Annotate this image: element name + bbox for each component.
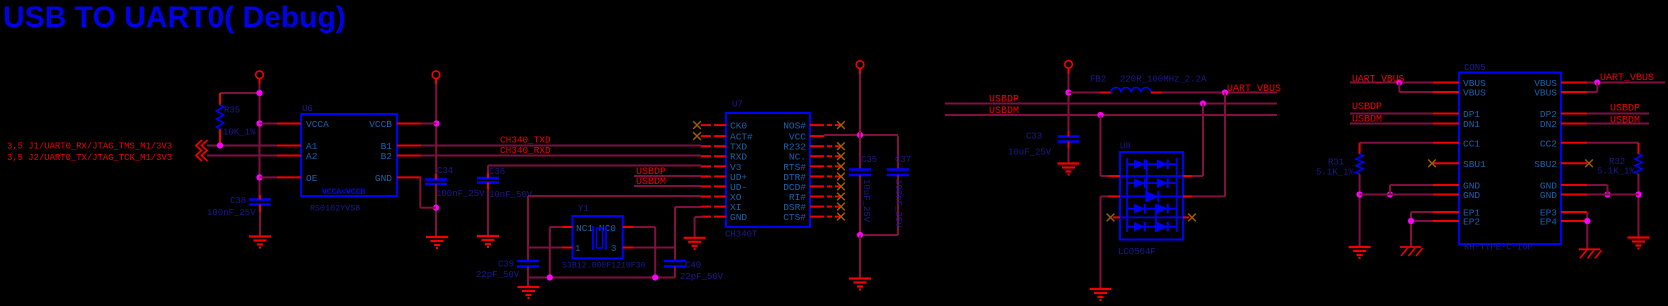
svg-text:CK0: CK0 [730, 121, 747, 132]
svg-text:GND: GND [375, 173, 392, 184]
svg-text:LC0504F: LC0504F [1118, 247, 1156, 257]
svg-text:USBDM: USBDM [636, 177, 666, 188]
svg-text:Y1: Y1 [578, 204, 589, 214]
svg-text:C39: C39 [498, 260, 514, 270]
svg-text:VBUS: VBUS [1463, 88, 1486, 99]
svg-text:EP2: EP2 [1463, 217, 1480, 228]
svg-text:VCCA<VCCB: VCCA<VCCB [322, 188, 365, 197]
svg-text:B2: B2 [381, 151, 393, 162]
svg-text:CC1: CC1 [1463, 138, 1480, 149]
svg-text:C34: C34 [437, 166, 453, 176]
svg-text:100nF_25V: 100nF_25V [436, 189, 485, 199]
svg-text:FB2: FB2 [1090, 75, 1106, 85]
svg-text:UART_VBUS: UART_VBUS [1227, 84, 1281, 95]
svg-text:KH-TYPE-C-16P: KH-TYPE-C-16P [1464, 243, 1533, 253]
svg-text:VCCB: VCCB [369, 119, 392, 130]
svg-text:22pF_50V: 22pF_50V [680, 272, 724, 282]
svg-text:UART_VBUS: UART_VBUS [1600, 73, 1654, 84]
svg-text:GND: GND [1463, 190, 1480, 201]
svg-text:R32: R32 [1609, 157, 1625, 167]
svg-text:5.1K_1%: 5.1K_1% [1597, 167, 1635, 177]
svg-text:C36: C36 [489, 167, 505, 177]
svg-text:S3B12.000F1210F30: S3B12.000F1210F30 [562, 262, 646, 271]
svg-text:5.1K_1%: 5.1K_1% [1316, 168, 1354, 178]
svg-text:10K_1%: 10K_1% [223, 128, 256, 138]
svg-text:100nF_25V: 100nF_25V [207, 208, 256, 218]
svg-text:NOS#: NOS# [783, 121, 806, 132]
svg-text:CON5: CON5 [1464, 63, 1486, 73]
svg-text:USBDP: USBDP [1352, 102, 1382, 113]
svg-text:GND: GND [730, 212, 747, 223]
svg-text:VCCA: VCCA [306, 119, 329, 130]
svg-text:A2: A2 [306, 151, 318, 162]
svg-text:220R_100MHz_2.2A: 220R_100MHz_2.2A [1120, 75, 1207, 85]
svg-text:USBDM: USBDM [989, 106, 1019, 117]
svg-text:USB TO UART0( Debug): USB TO UART0( Debug) [3, 1, 346, 34]
svg-text:U8: U8 [1120, 142, 1131, 152]
svg-text:10uF_25V: 10uF_25V [861, 179, 871, 223]
svg-text:USBDP: USBDP [1610, 104, 1640, 115]
svg-text:GND: GND [1540, 190, 1557, 201]
svg-text:100nF_25V: 100nF_25V [893, 179, 903, 228]
svg-text:C40: C40 [685, 261, 701, 271]
svg-text:U6: U6 [302, 104, 313, 114]
svg-text:C38: C38 [230, 196, 246, 206]
svg-text:VBUS: VBUS [1534, 88, 1557, 99]
svg-text:22pF_50V: 22pF_50V [476, 270, 520, 280]
svg-text:10uF_25V: 10uF_25V [1008, 148, 1052, 158]
svg-text:3,5 J1/UART0_RX/JTAG_TMS_M1/3: 3,5 J1/UART0_RX/JTAG_TMS_M1/3V3 [7, 142, 172, 152]
svg-text:C37: C37 [895, 155, 911, 165]
svg-text:C33: C33 [1026, 132, 1042, 142]
svg-text:CTS#: CTS# [783, 212, 806, 223]
svg-text:C35: C35 [861, 155, 877, 165]
svg-text:3: 3 [611, 244, 616, 254]
svg-text:OE: OE [306, 173, 318, 184]
svg-text:UART_VBUS: UART_VBUS [1352, 74, 1405, 85]
svg-text:CH340T: CH340T [725, 230, 758, 240]
svg-text:RS0102YVS8: RS0102YVS8 [310, 204, 360, 214]
svg-text:U7: U7 [732, 100, 743, 110]
svg-text:CH340_RXD: CH340_RXD [500, 145, 551, 156]
svg-text:DN2: DN2 [1540, 119, 1557, 130]
svg-text:USBDP: USBDP [989, 95, 1019, 106]
svg-text:DN1: DN1 [1463, 119, 1480, 130]
svg-text:USBDM: USBDM [1352, 115, 1382, 126]
svg-text:R35: R35 [224, 106, 240, 116]
svg-text:3,5 J2/UART0_TX/JTAG_TCK_M1/3: 3,5 J2/UART0_TX/JTAG_TCK_M1/3V3 [7, 153, 172, 163]
svg-text:CH340_TXD: CH340_TXD [500, 135, 551, 146]
svg-text:10nF_50V: 10nF_50V [489, 190, 533, 200]
svg-text:CC2: CC2 [1540, 138, 1557, 149]
svg-text:R31: R31 [1328, 158, 1344, 168]
svg-text:SBU1: SBU1 [1463, 159, 1486, 170]
svg-text:1: 1 [575, 244, 580, 254]
svg-text:SBU2: SBU2 [1534, 159, 1557, 170]
svg-text:USBDM: USBDM [1610, 116, 1640, 127]
svg-text:EP4: EP4 [1540, 217, 1557, 228]
